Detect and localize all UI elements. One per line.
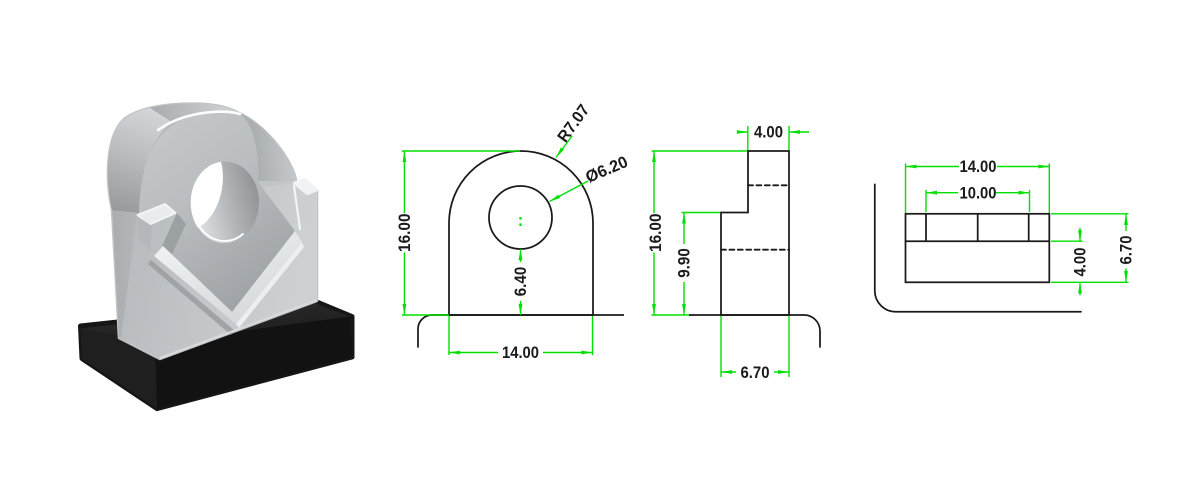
svg-text:9.90: 9.90 <box>676 248 694 278</box>
svg-text:6.70: 6.70 <box>741 364 770 382</box>
svg-text:6.70: 6.70 <box>1118 236 1136 265</box>
svg-text:6.40: 6.40 <box>512 267 530 297</box>
svg-text:16.00: 16.00 <box>396 213 414 252</box>
svg-text:14.00: 14.00 <box>960 158 997 176</box>
svg-text:16.00: 16.00 <box>647 213 665 252</box>
svg-text:4.00: 4.00 <box>754 123 783 141</box>
svg-text:10.00: 10.00 <box>960 184 997 202</box>
svg-text:R7.07: R7.07 <box>554 101 593 146</box>
svg-text:Ø6.20: Ø6.20 <box>583 153 631 187</box>
svg-text:14.00: 14.00 <box>502 344 539 362</box>
svg-text:4.00: 4.00 <box>1072 248 1090 277</box>
